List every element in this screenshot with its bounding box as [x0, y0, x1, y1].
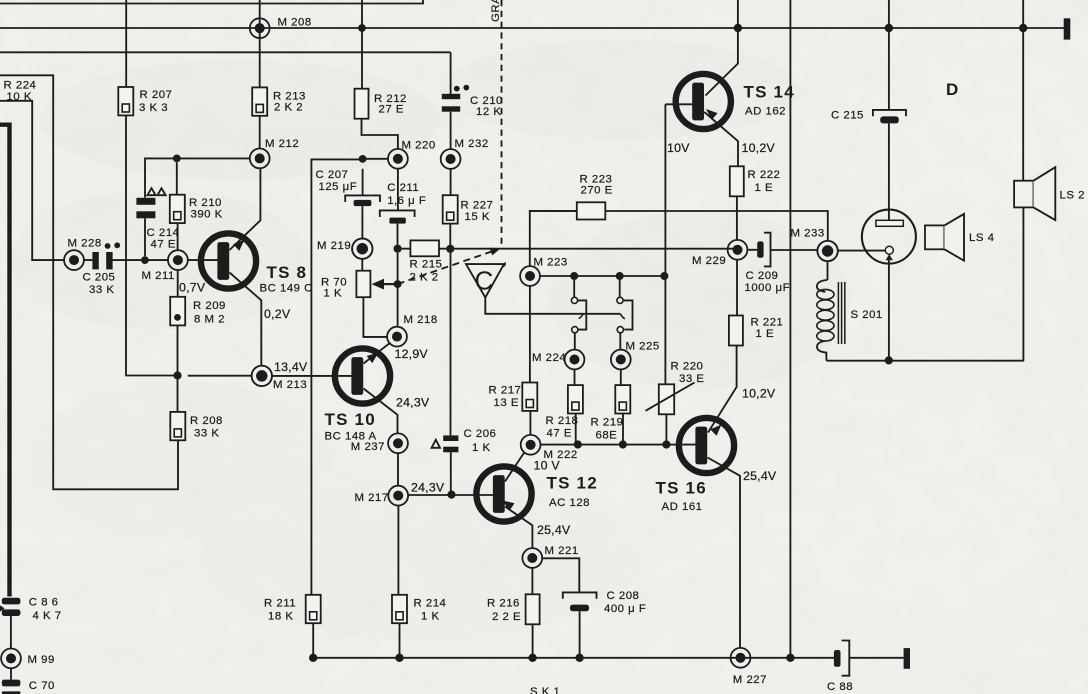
resistor R227	[443, 195, 458, 223]
wire M229 to C209	[747, 249, 817, 251]
wire C86 to M99	[10, 616, 12, 649]
node M224	[565, 350, 585, 370]
mech tick 1	[579, 314, 584, 319]
svg-text:13 E: 13 E	[494, 397, 519, 409]
terminal bottom right	[904, 648, 910, 669]
svg-text:12 K: 12 K	[476, 106, 501, 118]
svg-text:10V: 10V	[667, 141, 690, 155]
switch pole1 upper wire	[573, 280, 575, 297]
svg-text:M 208: M 208	[278, 16, 312, 28]
wire M211 to R209	[177, 270, 179, 297]
wire M233 to coil	[827, 261, 829, 280]
svg-text:33 K: 33 K	[194, 428, 219, 440]
svg-text:AD 161: AD 161	[662, 501, 703, 513]
node M220	[388, 149, 408, 169]
svg-text:M 228: M 228	[68, 238, 102, 250]
TS8 collector	[230, 168, 261, 250]
resistor R218	[568, 385, 583, 413]
wire M222 row to TS16	[541, 444, 698, 446]
node M223	[520, 266, 540, 286]
capacitor C215	[873, 110, 906, 116]
resistor R213	[252, 87, 267, 115]
junction R219	[619, 440, 627, 448]
svg-text:C 208: C 208	[607, 590, 640, 602]
svg-text:C 210: C 210	[470, 95, 503, 107]
svg-text:R 210: R 210	[189, 197, 222, 209]
wire C208 to bus	[579, 611, 581, 658]
capacitor C207 (bracket+bar)	[345, 169, 380, 202]
R220 diagonal strike	[646, 383, 695, 411]
svg-text:M 211: M 211	[142, 270, 175, 282]
wire R211 to bus	[312, 623, 314, 658]
wire M229 to R221	[736, 260, 738, 316]
junction jack drop	[885, 356, 893, 364]
svg-text:10 V: 10 V	[534, 458, 561, 472]
wire C215 top	[888, 0, 890, 110]
resistor R211	[306, 595, 321, 623]
capacitor C209	[757, 241, 763, 257]
junction R215 left	[394, 245, 402, 253]
wire M225 to R219	[620, 369, 622, 384]
node M222	[521, 435, 541, 455]
transistor TS12	[476, 466, 531, 521]
wire M220 to C211	[397, 169, 399, 211]
wire M223 to R217	[529, 286, 531, 383]
TS10 collector arrow	[367, 353, 379, 364]
wire M208 drop to R212	[361, 0, 363, 90]
switch pole1 lower wire	[574, 333, 576, 350]
mech tick 2	[620, 314, 625, 319]
svg-text:R 217: R 217	[489, 385, 522, 397]
wire R214 to bus	[399, 623, 401, 658]
node M212	[250, 149, 270, 169]
wire C88 to terminal	[849, 657, 903, 659]
triangle mark C206	[432, 440, 440, 448]
svg-text:M 223: M 223	[534, 256, 568, 268]
wire R210 to M211	[177, 223, 179, 250]
svg-text:68E: 68E	[596, 430, 618, 442]
dashed mech coupling diagonal	[398, 250, 496, 284]
svg-text:1 K: 1 K	[472, 442, 491, 454]
resistor R222	[730, 166, 744, 196]
svg-text:M 218: M 218	[404, 314, 438, 326]
wire M99 to C70	[10, 668, 12, 679]
resistor R209	[170, 297, 185, 326]
transistor TS8	[201, 233, 256, 288]
wire R207 to M213 wire	[126, 115, 178, 375]
node M228	[64, 250, 84, 270]
TS8 collector arrow	[233, 240, 244, 251]
svg-text:TS 8: TS 8	[267, 263, 308, 282]
svg-text:2 K 2: 2 K 2	[410, 272, 439, 284]
wire LS2 drop	[1022, 0, 1024, 361]
switch pole2 upper wire	[619, 280, 621, 297]
junction C214 bottom	[141, 256, 149, 264]
svg-text:R 216: R 216	[487, 598, 520, 610]
wire M213 base	[188, 375, 353, 377]
resistor R221	[729, 316, 743, 346]
junction TS12 base	[447, 491, 455, 499]
transistor TS14	[676, 74, 731, 129]
svg-text:47 E: 47 E	[151, 239, 176, 251]
node M233	[817, 241, 837, 261]
transistor TS16	[679, 418, 734, 473]
wire R219 to bus	[622, 414, 624, 445]
svg-text:3 K 3: 3 K 3	[139, 102, 168, 114]
TS16 emitter	[708, 458, 741, 649]
svg-text:S K 1: S K 1	[530, 686, 560, 694]
wire TS14 base drop to R220	[664, 104, 666, 384]
TS10 emitter	[364, 389, 398, 434]
wire M232 to R227	[450, 169, 452, 195]
TS8 base wire	[188, 259, 220, 261]
wiper arrow R70	[382, 283, 398, 285]
svg-text:C 214: C 214	[147, 227, 180, 239]
svg-text:47 E: 47 E	[547, 427, 572, 439]
node M225	[611, 350, 631, 370]
wire M221 to R216	[531, 568, 533, 595]
junction R216 bus	[528, 654, 536, 662]
wire M223 up to R223	[530, 211, 577, 266]
capacitor C208	[563, 592, 597, 598]
svg-text:M 213: M 213	[273, 379, 307, 391]
svg-text:TS 10: TS 10	[325, 410, 376, 429]
svg-text:M 229: M 229	[692, 255, 726, 267]
svg-text:C 8 6: C 8 6	[29, 597, 59, 609]
junction C208 bus	[575, 654, 583, 662]
node M99	[1, 649, 21, 669]
svg-text:R 214: R 214	[414, 598, 447, 610]
speaker LS4	[925, 225, 944, 249]
wire C211 to junction	[397, 224, 399, 327]
svg-text:M 99: M 99	[28, 654, 55, 666]
wire second bus	[0, 51, 451, 53]
mech bar from C triangle	[485, 298, 620, 314]
wire M221 to C208	[542, 558, 579, 592]
switch pole2 lower wire	[619, 333, 621, 350]
svg-text:1 K: 1 K	[324, 287, 343, 299]
svg-text:R 224: R 224	[4, 80, 37, 92]
svg-text:8 M 2: 8 M 2	[194, 313, 225, 325]
wire R215 terminals	[402, 248, 738, 250]
wire R222 to M229	[736, 196, 738, 240]
svg-text:R 218: R 218	[546, 415, 579, 427]
TS12 emitter to M221	[505, 507, 532, 549]
svg-text:R 220: R 220	[671, 361, 704, 373]
resistor R215	[410, 240, 439, 256]
svg-text:M 220: M 220	[402, 139, 436, 151]
node M237	[388, 433, 408, 453]
svg-text:4 K 7: 4 K 7	[33, 610, 62, 622]
junction at M208 bus	[358, 24, 366, 32]
junction R211 bus	[309, 654, 317, 662]
svg-text:12,9V: 12,9V	[395, 347, 429, 361]
wire R220 to bus	[665, 414, 667, 444]
svg-text:C: C	[475, 266, 494, 296]
svg-text:1 K: 1 K	[421, 610, 440, 622]
wire M220 group top: corner to M220	[311, 159, 388, 248]
svg-text:R 211: R 211	[264, 598, 296, 610]
transistor TS10	[335, 348, 390, 403]
resistor R223	[577, 202, 606, 219]
resistor R216	[526, 594, 540, 624]
wire M219 to R70	[361, 259, 363, 271]
node M229	[728, 240, 748, 260]
svg-text:0,7V: 0,7V	[179, 281, 206, 295]
svg-text:18 K: 18 K	[268, 610, 293, 622]
svg-text:125 μF: 125 μF	[319, 181, 358, 193]
wire C206 drop	[450, 253, 452, 436]
svg-text:27 E: 27 E	[379, 104, 404, 116]
wire M223 row	[540, 275, 665, 277]
capacitor C86	[0, 598, 20, 616]
svg-text:R 209: R 209	[193, 300, 226, 312]
TS14 emitter arrow	[706, 109, 718, 120]
wire C210 to M232	[450, 112, 452, 149]
TS12 collector to M222	[505, 453, 524, 482]
capacitor C214	[136, 198, 155, 219]
wire R210	[176, 162, 178, 194]
TS12 emitter arrow	[503, 501, 515, 511]
arrow at dashed top end	[490, 248, 501, 256]
TS10 collector to M218	[364, 343, 391, 364]
svg-text:TS 14: TS 14	[744, 82, 795, 101]
dashed line GRA	[501, 0, 503, 248]
wire feedback upper	[0, 75, 179, 489]
junction switch right	[616, 272, 624, 280]
wire C215 to jack	[888, 123, 890, 221]
svg-text:0,2V: 0,2V	[264, 307, 291, 321]
wire R216 to bus	[532, 624, 534, 658]
svg-text:M 232: M 232	[455, 138, 489, 150]
svg-text:33 K: 33 K	[89, 284, 114, 296]
capacitor C210	[442, 85, 469, 112]
capacitor C211 (bracket+bar)	[380, 210, 415, 217]
wire TS14 collector from bus	[706, 0, 738, 96]
resistor R207	[118, 87, 133, 115]
headphone jack D	[862, 210, 916, 264]
svg-text:13,4V: 13,4V	[274, 360, 308, 374]
node M232	[441, 149, 461, 169]
bottom supply bus	[313, 657, 834, 659]
svg-text:AC 128: AC 128	[549, 497, 590, 509]
junction R210 top	[173, 155, 181, 163]
svg-text:15 K: 15 K	[465, 211, 490, 223]
TS16 collector arrow	[710, 425, 721, 436]
junction R214 bus	[395, 654, 403, 662]
switch pole2 contacts and arm	[617, 297, 623, 303]
svg-text:C 70: C 70	[29, 680, 55, 692]
svg-text:2 K 2: 2 K 2	[274, 101, 303, 113]
svg-text:C 215: C 215	[831, 109, 864, 121]
wire M212 left with junction	[145, 158, 250, 197]
svg-text:TS 12: TS 12	[547, 474, 598, 493]
svg-text:M 225: M 225	[626, 340, 660, 352]
svg-text:10,2V: 10,2V	[742, 141, 776, 155]
wire M217 to R214	[397, 506, 399, 595]
resistor R208	[170, 412, 185, 440]
svg-text:1 E: 1 E	[755, 182, 774, 194]
svg-text:C 209: C 209	[746, 270, 779, 282]
wire R223 row	[530, 211, 828, 241]
C triangle	[466, 264, 504, 297]
switch pole1 contacts and arm	[571, 297, 577, 303]
wire C214 to junction	[144, 218, 146, 256]
svg-text:10 K: 10 K	[7, 91, 32, 103]
svg-text:C 207: C 207	[316, 169, 349, 181]
coil core lines	[838, 282, 844, 344]
wire long drop x791	[789, 0, 791, 658]
svg-text:33 E: 33 E	[679, 373, 704, 385]
wire R212 to M220	[362, 119, 398, 149]
svg-text:M 217: M 217	[355, 492, 389, 504]
junction LS2 bus	[1019, 24, 1027, 32]
junction switch left	[570, 272, 578, 280]
svg-text:S 201: S 201	[851, 309, 883, 321]
svg-text:BC 149 C: BC 149 C	[260, 282, 313, 294]
TS14 emitter	[704, 112, 738, 166]
svg-text:M 227: M 227	[733, 674, 767, 686]
svg-text:M 212: M 212	[265, 138, 299, 150]
junction x791 bus bottom	[786, 654, 794, 662]
wire jack to ground row	[888, 260, 890, 356]
svg-text:C 205: C 205	[83, 272, 116, 284]
svg-text:R 219: R 219	[591, 417, 624, 429]
thick supply line left	[0, 125, 10, 597]
svg-text:10,2V: 10,2V	[742, 386, 776, 400]
capacitor C205	[92, 242, 120, 269]
wire R213 drop	[259, 0, 261, 88]
svg-text:24,3V: 24,3V	[396, 396, 430, 410]
coil S201	[817, 280, 827, 292]
wire R70 bottom to M218	[363, 297, 387, 337]
svg-text:AD 162: AD 162	[745, 106, 786, 118]
wire C205 to M211	[84, 259, 168, 261]
junction R220	[662, 440, 670, 448]
svg-text:C 88: C 88	[827, 681, 853, 693]
resistor R212	[355, 89, 369, 119]
resistor R220	[659, 384, 674, 414]
svg-text:1000 μF: 1000 μF	[745, 282, 791, 294]
resistor R210	[170, 195, 185, 223]
svg-text:C 206: C 206	[464, 428, 497, 440]
node M218	[387, 327, 407, 347]
node M208	[250, 18, 270, 38]
svg-text:M 233: M 233	[791, 228, 825, 240]
node M221	[522, 548, 542, 568]
wire C207 to M219	[361, 206, 363, 238]
node M227	[731, 648, 751, 668]
potentiometer R70	[356, 271, 370, 298]
wire C210 drop	[450, 52, 452, 94]
svg-text:2 2 E: 2 2 E	[492, 611, 521, 623]
svg-text:25,4V: 25,4V	[537, 523, 571, 537]
svg-text:M 221: M 221	[545, 545, 579, 557]
wire M224 to R218	[574, 369, 576, 384]
svg-text:25,4V: 25,4V	[743, 469, 777, 483]
svg-text:M 219: M 219	[317, 240, 351, 252]
svg-text:R 222: R 222	[748, 169, 781, 181]
svg-text:24,3V: 24,3V	[411, 481, 445, 495]
svg-text:270 E: 270 E	[581, 185, 613, 197]
junction C207 top	[359, 155, 367, 163]
wire R208 to feedback	[177, 440, 179, 489]
node M211	[168, 250, 188, 270]
wire M217 to TS12	[408, 494, 494, 496]
wire M237 to M217	[397, 453, 399, 486]
node M213	[252, 366, 272, 386]
resistor R219	[615, 385, 630, 413]
svg-text:R 208: R 208	[190, 415, 223, 427]
wire R224 branch	[0, 101, 64, 260]
node M217	[388, 486, 408, 506]
wire R207 drop	[125, 0, 127, 87]
TS14 base wire	[665, 103, 693, 105]
svg-text:LS 2: LS 2	[1060, 190, 1085, 202]
resistor R217	[522, 383, 537, 411]
junction M223 wire end	[660, 272, 668, 280]
svg-text:1 E: 1 E	[756, 328, 775, 340]
svg-text:400 μ F: 400 μ F	[604, 603, 646, 615]
junction wiper on vertical	[394, 280, 402, 288]
svg-text:C 211: C 211	[387, 182, 419, 194]
wire R218 to bus	[575, 414, 577, 445]
resistor R214	[392, 595, 407, 623]
svg-text:M 224: M 224	[532, 352, 566, 364]
wire coil to ground row	[827, 360, 1024, 362]
junction M213 wire	[173, 371, 181, 379]
svg-text:LS 4: LS 4	[969, 232, 994, 244]
wire R217 to M222	[529, 411, 531, 435]
wire M233 to jack	[838, 250, 886, 252]
svg-text:R 227: R 227	[461, 200, 494, 212]
triangles above C214	[147, 188, 165, 195]
capacitor C88	[834, 650, 841, 667]
speaker LS2	[1014, 181, 1033, 208]
wire R209 to junction	[177, 325, 179, 411]
wire long drop x312 to R211	[310, 248, 312, 595]
wire R213 to M212	[259, 116, 261, 149]
svg-text:1,6 μ F: 1,6 μ F	[387, 195, 426, 207]
wire R227 to R215 junction	[449, 224, 451, 249]
svg-text:R 221: R 221	[751, 316, 784, 328]
capacitor C70	[2, 680, 21, 694]
wire top box bottom edge	[0, 0, 423, 4]
junction R215 right	[446, 245, 454, 253]
svg-text:R 215: R 215	[410, 259, 443, 271]
junction C215 bus	[885, 24, 893, 32]
svg-text:390 K: 390 K	[191, 209, 223, 221]
svg-text:M 237: M 237	[351, 441, 385, 453]
svg-text:R 207: R 207	[140, 89, 173, 101]
terminal top right	[1064, 18, 1071, 39]
wire top supply bus	[0, 27, 1064, 29]
node M219	[352, 239, 372, 259]
junction R218	[574, 440, 582, 448]
capacitor C206	[443, 435, 458, 452]
svg-text:GRA: GRA	[490, 0, 502, 22]
junction TS14 bus	[734, 24, 742, 32]
svg-text:TS 16: TS 16	[656, 478, 707, 497]
wire R221 to TS16 collector	[708, 346, 737, 433]
wire C206 to TS12 base junction	[450, 452, 452, 494]
svg-text:D: D	[946, 80, 958, 99]
TS8 emitter	[230, 273, 262, 367]
